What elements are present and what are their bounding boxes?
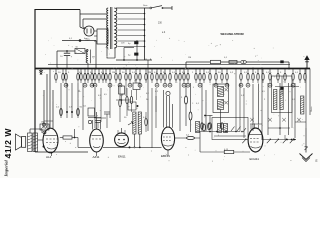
resistor R51 (77, 109, 80, 116)
wire pot down b (139, 134, 141, 148)
svg-text:2M: 2M (148, 72, 151, 74)
tube V3 EM11 (115, 133, 129, 147)
resistor R34 column (203, 69, 205, 84)
wire heater drop left (106, 48, 108, 58)
resistor R43 column (262, 69, 264, 84)
resistor R36 column (214, 69, 218, 88)
ground chassis left (39, 69, 43, 75)
choke L1 field coil (86, 50, 95, 69)
wire drop h (77, 83, 79, 118)
label V2 (93, 155, 100, 159)
wire rf drop r280 (279, 83, 281, 135)
wire secondary bus vertical (144, 8, 146, 69)
wire B+ drop right (95, 41, 97, 69)
svg-text:AZ11: AZ11 (93, 155, 100, 159)
transformer T1 secondary winding (114, 8, 117, 48)
resistor R63 (189, 83, 192, 132)
wire tube4 pins c (169, 96, 171, 127)
resistor R35 column (209, 69, 211, 84)
wire avc line2 (221, 61, 241, 64)
band switch box (212, 118, 248, 140)
tube V1 AL4 (43, 128, 59, 153)
capacitor C0 (79, 39, 82, 42)
tube V2 AZ11 (90, 129, 104, 152)
wire link r81 (136, 90, 138, 101)
wire mains drop (79, 10, 81, 28)
wire bus main (35, 68, 310, 70)
svg-text:EBF11: EBF11 (161, 154, 170, 158)
resistor R50 (60, 109, 63, 116)
wire psu out line (152, 59, 186, 61)
resistor R70 (201, 123, 204, 130)
scan speckle texture (42, 38, 305, 162)
label netz (143, 4, 148, 7)
resistor R19 column (128, 69, 132, 88)
svg-text:E: E (316, 159, 318, 163)
wire to tube2 (78, 138, 91, 148)
svg-text:1M: 1M (188, 57, 191, 59)
wire tube3 bottom (103, 146, 152, 148)
wire tube4 pins b (166, 96, 168, 127)
label V1 (46, 155, 52, 159)
wire drop x240 (239, 83, 241, 132)
svg-text:Skala: Skala (311, 106, 313, 112)
resistor R16 column (115, 69, 117, 84)
speaker LS1 (16, 134, 26, 150)
label V3 (118, 155, 126, 159)
wire mains tap lower (83, 19, 106, 27)
wire r60 left (60, 137, 63, 139)
wire rf pair left (252, 84, 254, 131)
wire T1 bottom tap (104, 43, 125, 46)
wire psu h60 (116, 59, 152, 61)
wire drop e (60, 83, 62, 118)
box mid small (128, 102, 139, 110)
resistor R38 column (225, 69, 229, 88)
wire g1 drop c (49, 69, 51, 129)
resistor R1 (75, 47, 85, 54)
wire tube2 pins up a (92, 120, 94, 130)
label mid1 (104, 93, 150, 96)
resistor R26 column (163, 69, 167, 88)
wire g1 drop d (52, 90, 54, 128)
resistor R62 (185, 83, 188, 126)
wire speaker top (30, 129, 42, 133)
resistor R75 (203, 124, 206, 131)
resistor R44 column (268, 69, 272, 88)
wire tube5 out right (263, 138, 297, 140)
wire tube1 grid link (44, 120, 53, 122)
wire drop x244 (243, 88, 245, 138)
wire tube3 top pin (118, 128, 125, 134)
label scale right (311, 106, 313, 112)
label V5 (250, 157, 260, 161)
svg-text:41/2 W: 41/2 W (3, 128, 13, 159)
resistor R6 column (77, 69, 79, 84)
wire tube5 drop 285 (284, 135, 286, 140)
wire tube4 pins d (172, 104, 174, 128)
resistor R42 column (257, 69, 259, 84)
grid cap C30 (166, 91, 170, 95)
RF coil L5 (280, 90, 283, 110)
wire rf pair right (259, 84, 266, 125)
fuse F1 (241, 60, 247, 63)
wire tube2 pins up c (88, 120, 100, 130)
wire between t3 t4 (152, 146, 162, 148)
wire drop x148 (147, 60, 149, 131)
wire link r80 (122, 83, 127, 104)
capacitor C2 4uF (128, 40, 138, 60)
tube V4 EBF11 (161, 127, 174, 150)
wire switch out (162, 6, 172, 10)
capacitor C3 4uF (128, 53, 138, 57)
transformer T1 primary winding (107, 8, 109, 48)
resistor R23 column (151, 69, 153, 84)
ground chassis right (300, 154, 313, 162)
coil L8 (218, 124, 222, 133)
switch S1 mains (150, 6, 164, 9)
svg-text:ECH11: ECH11 (250, 157, 260, 161)
plug P1 mains connector (80, 26, 94, 36)
resistor R18 column (125, 69, 127, 84)
wire frame left border (34, 9, 36, 152)
wire drop x236 (235, 69, 237, 132)
resistor R83 (119, 88, 121, 122)
wire rf drop r268 (267, 83, 269, 135)
resistor R73 (224, 150, 234, 153)
wire bottom return (200, 132, 224, 153)
wire if1 top (220, 69, 222, 87)
resistor R86 (145, 112, 147, 132)
wire heater drop right (107, 48, 115, 58)
resistor R41 column (252, 69, 254, 84)
label r50 (56, 107, 83, 109)
resistor R49 column (304, 69, 306, 84)
label 220V (86, 39, 91, 42)
wire B+ line (62, 38, 96, 41)
capacitor C20 node (66, 111, 73, 113)
wire rf drop r306 (305, 69, 307, 129)
wire mid drop a (201, 83, 203, 131)
resistor R13 column (102, 69, 104, 84)
resistor R8 column (83, 69, 87, 88)
label r64 (186, 135, 190, 137)
RF coil L6 (301, 96, 304, 114)
wire t2 to tube1 (38, 139, 44, 141)
voltage selector box S2 (89, 29, 108, 44)
resistor R39 column (239, 69, 243, 88)
resistor R46 column (284, 69, 286, 84)
resistor R31 column (186, 69, 190, 88)
resistor R4 column (62, 69, 64, 84)
coil L7 (196, 122, 200, 133)
capacitor C41 (96, 121, 101, 129)
label 230 (158, 23, 166, 35)
resistor R37 column (221, 69, 223, 84)
wire drop x156b (155, 88, 157, 112)
wire tube2 bottom (96, 152, 98, 156)
wire g1 drop a (43, 90, 45, 128)
wire drop x156 (155, 96, 157, 128)
wire tube4 pins a (163, 90, 165, 128)
wire frame top (35, 9, 80, 11)
IF transformer IF1 box (213, 84, 229, 113)
wire r60 up (74, 129, 76, 138)
wire rf drop r290 (289, 83, 293, 135)
svg-text:AL4: AL4 (46, 155, 52, 159)
wire mid h115b (96, 117, 106, 119)
output transformer T2 secondary (33, 133, 38, 152)
resistor R82 box (84, 106, 95, 117)
resistor R45 column (277, 69, 279, 84)
label wechselstrom (221, 32, 245, 36)
resistor R64h (175, 136, 200, 139)
resistor R47 column (291, 69, 295, 88)
label r73 (224, 149, 229, 151)
wire drop x101 (100, 88, 102, 122)
label ground E (316, 159, 318, 163)
grid box tube1 (40, 122, 49, 135)
wire bus thin (48, 63, 290, 65)
wire rf drop r295 (294, 83, 296, 138)
resistor R12 column (98, 69, 100, 84)
labels middle scatter (98, 91, 296, 119)
resistor R71 (209, 116, 212, 130)
labels component values row (58, 57, 299, 74)
wire r60 right (72, 137, 78, 139)
tube V5 ECH11 (248, 124, 263, 153)
wire box bottom (214, 135, 246, 137)
wire mid drop b (205, 90, 207, 131)
wire r73 to tube5 (234, 150, 253, 153)
trimmer arrows box (231, 127, 246, 133)
svg-text:WECHSELSTROM: WECHSELSTROM (221, 32, 245, 36)
label brand (4, 159, 9, 177)
RF coil L4 (274, 90, 277, 110)
resistor R81 (133, 81, 140, 90)
wire if1 down (220, 110, 222, 129)
wire rf link bottom (250, 124, 290, 129)
antenna A1 (304, 55, 309, 68)
resistor R28 column (175, 69, 177, 84)
svg-text:EM11: EM11 (118, 155, 126, 159)
wire rf drop r262 (261, 68, 263, 141)
wire pot down a (134, 134, 136, 148)
resistor R60 (63, 136, 72, 139)
capacitor C40 (104, 112, 110, 128)
output transformer T2 primary (28, 133, 33, 152)
resistor R48 column (299, 69, 301, 84)
wire drop x110b (109, 83, 111, 118)
wire drop f (66, 83, 68, 118)
resistor R25 column (160, 69, 162, 84)
transformer T1 core (110, 7, 112, 49)
wire antenna line (246, 60, 289, 68)
wire rf top link (275, 86, 299, 88)
resistor R14 column (105, 69, 107, 84)
wire B+ drop left (56, 51, 58, 69)
resistor R80 (119, 84, 125, 95)
wire speaker bottom (34, 151, 36, 154)
resistor R7 column (80, 69, 82, 84)
wire T1 secondary taps (118, 13, 146, 48)
resistor R3 column (55, 69, 57, 84)
wire tube4 bottom (167, 150, 169, 156)
svg-text:Imperial: Imperial (4, 159, 9, 177)
resistor R30 column (182, 69, 186, 88)
wire chassis drop (305, 128, 308, 153)
wire R1 right (85, 50, 88, 52)
resistor R22 column (145, 69, 147, 84)
resistor R27 column (168, 69, 172, 88)
resistor R32 column (195, 69, 197, 84)
resistor R2 (211, 60, 221, 63)
wire drop x180 (179, 83, 181, 131)
resistor R21 column (138, 69, 142, 88)
wire bottom left (35, 151, 88, 153)
IF1 trimmer a (225, 88, 228, 91)
wire drop g (71, 83, 73, 118)
svg-text:1M: 1M (41, 122, 44, 124)
band switch S3 contacts (242, 139, 294, 144)
capacitor C1 (60, 51, 70, 69)
wire junction row (196, 131, 240, 133)
wire avc line (186, 62, 210, 69)
wire tube2 pins up b (96, 112, 98, 129)
resistor R5 column (64, 69, 68, 88)
svg-text:1M: 1M (112, 72, 115, 74)
resistor R15 column (108, 69, 112, 88)
trimmer caps row (250, 118, 301, 122)
IF1 winding top (218, 87, 224, 97)
wire if1 h115 (204, 115, 212, 117)
resistor R20 column (135, 69, 137, 84)
wire switch feed (145, 7, 151, 9)
wire drop x83 (79, 83, 83, 130)
resistor R9 column (87, 69, 89, 84)
resistor R29 column (179, 69, 181, 84)
wire rf link bottom2 (295, 121, 306, 123)
wire h96 (116, 99, 130, 101)
IF1 trimmer b (225, 101, 228, 104)
resistor R10 column (90, 69, 94, 88)
resistor R72 (221, 113, 224, 130)
wire g1 drop b (46, 74, 48, 128)
label pair (262, 78, 265, 81)
box antenna filter (272, 76, 293, 113)
resistor R84 (126, 88, 128, 116)
potentiometer P2 volume (128, 112, 141, 134)
svg-text:Netz: Netz (143, 4, 148, 7)
wire selector to transformer (107, 35, 109, 37)
capacitor C50 black (281, 76, 284, 95)
label V4 (161, 154, 170, 158)
wire drop x95 long (94, 88, 96, 128)
resistor R85 (130, 90, 132, 112)
wire h117 (88, 117, 101, 119)
resistor R33 column (198, 69, 202, 88)
wire R1 left (57, 50, 75, 52)
wire tube1 cathode down (51, 152, 53, 156)
resistor R24 column (155, 69, 159, 88)
wire drop x152 long (151, 88, 153, 148)
wire rf drop r310 (309, 69, 311, 116)
wire mains tap upper (80, 13, 106, 15)
wire c2 bracket (124, 48, 134, 61)
resistor R40 column (246, 69, 250, 88)
IF1 winding bottom (218, 100, 224, 110)
wire T1 top tap (116, 7, 145, 9)
resistor R17 column (118, 69, 122, 88)
coil L9 (224, 124, 228, 133)
grid cap C21 (42, 123, 45, 126)
resistor R76 (208, 123, 211, 130)
resistor R11 column (93, 69, 97, 88)
label model (3, 128, 13, 159)
